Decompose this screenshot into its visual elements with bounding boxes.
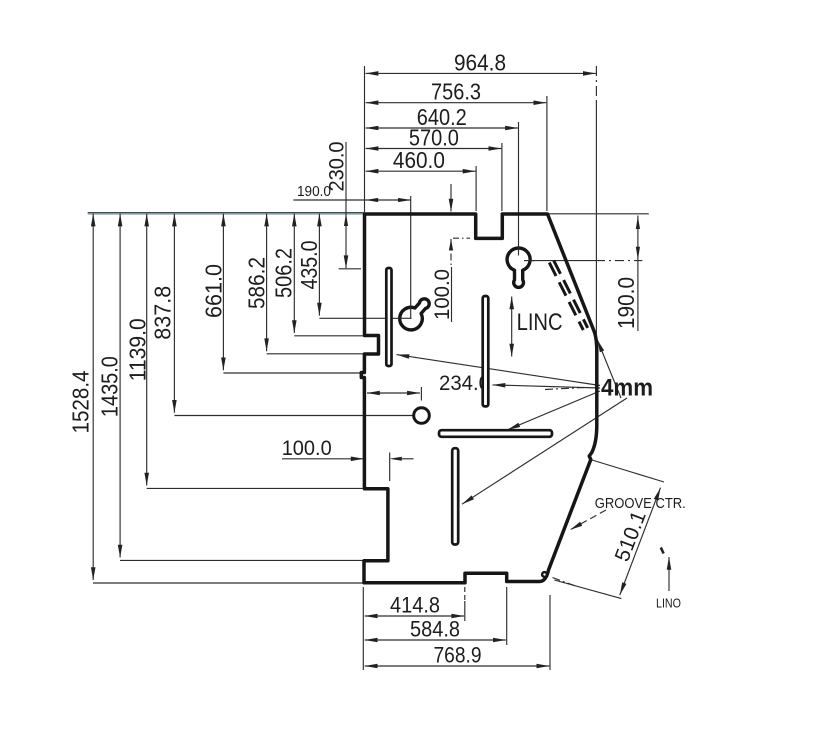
top-right edge extension [546,213,649,215]
left keyhole centerline overlay horizontal [398,317,412,319]
LINC double arrow [511,297,513,357]
arrow 190.0 left [366,198,379,202]
right keyhole vertical centerline [518,254,520,257]
svg-text:100.0: 100.0 [431,269,454,320]
groove slot horizontal [439,430,552,437]
bottom ext left [362,587,364,670]
dim 1435.0 ext [120,559,364,561]
notch bottom dash-dot [453,237,470,239]
dim 964.8 line [366,72,596,74]
right extension line [595,102,597,334]
dim 1528.4 line [92,214,94,580]
dim 768.9 line [365,665,550,667]
dim 640.2 line [366,127,518,129]
dim 414.8 ext dashed [464,587,466,601]
notch 100.0 dash-dot tail [450,239,452,266]
dim 1139.0 ext [147,487,364,489]
4mm leader A left groove [397,355,601,386]
ext 100.0 step [389,453,391,482]
dim 414.8 ext [464,601,466,621]
svg-text:964.8: 964.8 [454,50,506,76]
arrow 190.0 right up [636,216,640,229]
right keyhole centerline overlay horizontal [524,260,535,262]
dim 584.8 line [365,639,506,641]
LINO tick [661,548,664,554]
dim 584.8 ext [506,587,508,645]
dim 190.0 top-left line [293,199,410,201]
dim 506.2 ext [294,335,364,337]
right extension dash-dot top [595,66,597,102]
svg-text:506.2: 506.2 [270,248,296,298]
arrow 190.0 right down [636,247,640,260]
svg-text:435.0: 435.0 [296,241,322,290]
notch 100.0 up arrow [449,239,453,251]
right keyhole horizontal line [524,260,596,262]
right keyhole horizontal dashdot [596,260,642,262]
groove leader dashed [570,510,606,530]
dim 234.0 line [367,392,420,394]
4mm leader B middle groove [493,385,601,388]
svg-text:661.0: 661.0 [201,264,227,318]
dim 234.0 tick [420,387,422,401]
svg-text:768.9: 768.9 [434,643,482,668]
small circle [414,408,430,424]
dim 1139.0 line [146,214,148,486]
svg-text:4mm: 4mm [601,375,653,402]
LINO arrow [668,557,670,591]
keyhole left [395,292,436,334]
dim 460.0 line [366,170,476,172]
part outline [361,214,597,583]
groove slot left [386,268,391,366]
svg-text:LINC: LINC [517,309,563,336]
corner dash-dot bottom right [553,578,576,587]
svg-text:460.0: 460.0 [393,147,445,173]
dim 1528.4 ext [93,582,363,584]
4mm leader C horizontal groove [508,391,601,430]
svg-text:1139.0: 1139.0 [124,318,150,381]
dim 661.0 line [222,214,224,371]
dim 768.9 ext [549,595,551,670]
ext line 460.0 [475,166,477,211]
right keyhole centerline overlay vertical [518,246,520,256]
svg-text:GROOVE CTR.: GROOVE CTR. [595,496,686,512]
arrow 190.0 right [398,198,411,202]
dim 510.1 ext top [592,460,664,482]
svg-text:414.8: 414.8 [390,593,440,618]
dim 506.2 line [293,214,295,333]
rotated 100.0 underline [451,267,453,322]
ext line 640.2 down to keyhole [518,122,520,255]
left keyhole centerline overlay vertical [410,306,412,319]
slant groove dashed line 1 [549,263,583,331]
svg-text:LINO: LINO [656,596,681,611]
dim 435.0 ext [319,317,411,319]
svg-text:230.0: 230.0 [326,142,349,192]
ext line 190.0 to keyhole [410,196,412,319]
dim 230.0 vertical line [345,142,347,268]
arrow 100.0 right side [389,457,402,461]
dim 510.1 line [620,488,661,595]
dim 756.3 line [366,102,547,104]
notch 100.0 down arrow [450,184,452,212]
slant groove dashed line 2 [554,260,588,328]
svg-text:584.8: 584.8 [410,617,460,642]
top-left reference line [88,212,365,214]
dim 837.8 ext [174,415,413,417]
dim 586.2 ext [267,353,364,355]
4mm leader E slant groove [597,340,621,399]
dim 661.0 ext [223,372,361,374]
dim 1435.0 line [119,214,121,558]
svg-text:586.2: 586.2 [243,257,269,309]
ext tick 230.0 [339,268,361,270]
corner curl bottom right [542,572,547,577]
svg-text:1528.4: 1528.4 [68,370,94,433]
4mm leader D lower groove [462,398,627,504]
ext line 570.0 [501,143,503,211]
dim 100.0 bottom-left line [282,458,364,460]
dim 570.0 line [366,148,502,150]
keyhole right [507,248,530,287]
top-left reference line blue tint [88,213,365,215]
svg-text:1435.0: 1435.0 [97,356,123,417]
dash-dot accent near 4mm [545,388,584,390]
svg-text:510.1: 510.1 [611,508,651,565]
groove slot lower [452,448,458,544]
dim 190.0 right line [637,216,639,332]
dim 586.2 line [266,214,268,352]
tail 100.0 right [402,458,414,460]
svg-text:100.0: 100.0 [282,437,332,460]
dim 837.8 line [173,214,175,413]
arrow 230.0 up [344,214,348,227]
dim 414.8 line [365,615,465,617]
svg-text:837.8: 837.8 [150,286,176,340]
dim 510.1 ext bottom [554,580,621,599]
ext line 756.3 [546,96,548,211]
groove slot middle [483,296,489,406]
svg-text:190.0: 190.0 [613,277,639,329]
dim 435.0 line [318,214,320,316]
svg-text:756.3: 756.3 [431,79,481,105]
left extension line of part [364,66,366,212]
